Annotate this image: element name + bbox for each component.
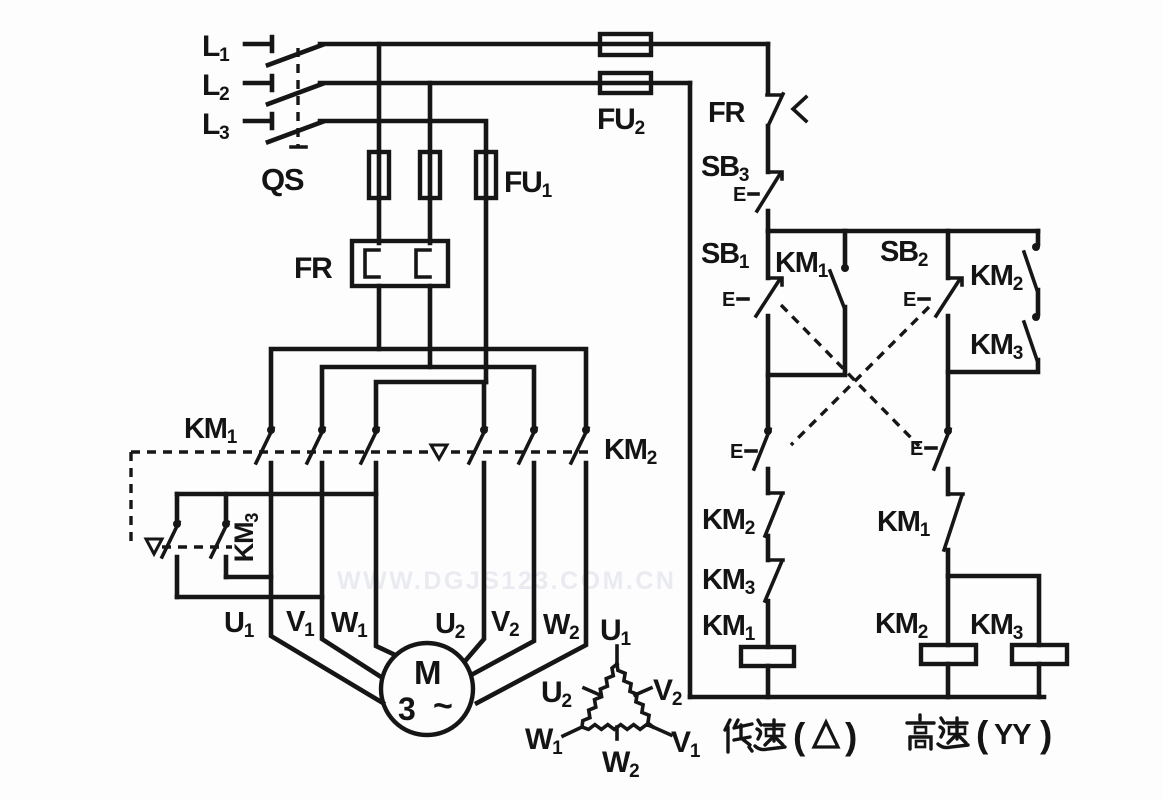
wire KM1 coil to bus — [766, 666, 771, 697]
wire distribution line A — [271, 349, 586, 426]
contactor KM2 NC contact — [765, 493, 783, 536]
svg-text:SB2: SB2 — [880, 236, 928, 271]
wire SB3 to node — [766, 211, 771, 231]
contactor KM1 main contact 2 — [318, 426, 326, 434]
wire motor lead W1 — [376, 463, 393, 654]
delta W2 tap — [615, 727, 619, 739]
svg-text:V1: V1 — [286, 606, 315, 641]
delta V1 lead — [653, 727, 671, 735]
wire phase A fuse to FR — [377, 198, 382, 243]
delta winding U1 stub — [615, 646, 619, 664]
pushbutton SB2 NC — [936, 278, 962, 316]
svg-text:KM2: KM2 — [702, 504, 755, 539]
svg-text:3: 3 — [398, 691, 415, 727]
svg-text:E: E — [730, 441, 743, 463]
wire phase B FR to node — [428, 286, 433, 367]
delta U2 tap — [584, 688, 600, 695]
wire right control feed — [766, 44, 771, 93]
wire motor lead U2 — [466, 463, 484, 660]
delta V2 tap — [635, 688, 651, 695]
motor M circle — [381, 643, 473, 735]
svg-text:E: E — [733, 184, 746, 206]
fuse FU1 a — [369, 152, 389, 198]
svg-text:KM2: KM2 — [970, 260, 1023, 295]
svg-text:QS: QS — [261, 162, 304, 197]
wire KM2 coil to bus — [946, 664, 951, 697]
wire bottom bus — [690, 695, 1044, 700]
svg-text:U1: U1 — [600, 614, 631, 650]
svg-text:KM1: KM1 — [877, 506, 931, 541]
FR heater element b — [416, 250, 430, 277]
contactor KM1 main contact 3 — [372, 426, 380, 434]
contactor KM2 main contact 1 — [480, 426, 488, 434]
wire KM3 bottom to V1 — [177, 595, 322, 600]
svg-text:W2: W2 — [543, 609, 579, 644]
wire motor lead V1 — [322, 463, 381, 677]
delta winding bottom side — [582, 725, 653, 730]
svg-text:WWW.DGJS123.COM.CN: WWW.DGJS123.COM.CN — [337, 567, 676, 595]
wire motor lead V2 — [473, 463, 534, 674]
switch QS blade L1 — [268, 45, 322, 65]
svg-text:(: ( — [793, 716, 806, 757]
delta winding right side — [617, 664, 653, 727]
wire motor lead W2 — [477, 463, 586, 703]
svg-text:E: E — [903, 289, 916, 311]
fuse FU1 c — [476, 152, 496, 198]
svg-text:SB1: SB1 — [701, 238, 750, 273]
svg-text:E: E — [722, 289, 735, 311]
svg-text:KM2: KM2 — [604, 434, 657, 469]
wire L3 terminal — [245, 114, 272, 128]
svg-text:U2: U2 — [435, 608, 465, 643]
contactor KM3 contact 1 — [175, 494, 180, 597]
svg-text:): ) — [1040, 714, 1051, 755]
svg-text:(: ( — [976, 714, 989, 755]
wire SB2 NO to KM1 NC — [946, 469, 951, 494]
switch QS linkage dashed — [296, 48, 299, 146]
svg-text:): ) — [845, 716, 856, 757]
contactor KM2 main contact 3 — [582, 426, 590, 434]
contactor KM3 contact 2 — [224, 494, 229, 577]
wire phase C fuse down — [484, 198, 489, 382]
coil KM1 — [741, 647, 794, 666]
svg-text:YY: YY — [994, 719, 1031, 751]
wire KM1 NC to coils — [946, 550, 951, 645]
wire splitter to KM3 coil — [948, 576, 1039, 645]
wire KM3 coil to bus — [1037, 664, 1042, 697]
label high speed YY — [907, 715, 934, 749]
wire L2 terminal — [245, 76, 272, 90]
svg-text:L2: L2 — [202, 69, 229, 105]
pushbutton SB2 NO — [944, 427, 952, 435]
fuse FU1 b — [420, 152, 440, 198]
svg-text:L3: L3 — [202, 108, 229, 144]
svg-text:KM3: KM3 — [970, 329, 1023, 364]
switch QS blade L2 — [268, 84, 322, 104]
svg-text:W1: W1 — [331, 607, 368, 642]
coil KM2 — [921, 645, 976, 664]
dashed link SB1-SB2 a — [781, 305, 919, 446]
svg-text:KM1: KM1 — [775, 247, 829, 282]
contactor KM1 NC contact — [944, 494, 963, 550]
wire SB2 to SB2 NO — [946, 316, 951, 428]
wire SB2 rail — [946, 231, 951, 278]
delta W1 lead — [563, 727, 582, 736]
mechanical linkage dashed KM1-KM2 — [131, 450, 590, 453]
wire FR to SB3 — [766, 126, 771, 172]
svg-text:~: ~ — [433, 687, 452, 725]
svg-text:FU1: FU1 — [504, 166, 553, 202]
wire left control rail — [688, 83, 693, 697]
svg-text:FR: FR — [708, 97, 746, 129]
contactor KM2 aux contact — [1032, 243, 1040, 251]
contactor KM3 aux contact — [1032, 313, 1040, 321]
coil KM3 — [1012, 645, 1067, 664]
wire to KM3 NC — [766, 536, 771, 560]
contactor KM2 main contact 2 — [530, 426, 538, 434]
FR heater element a — [365, 250, 379, 277]
svg-text:KM1: KM1 — [184, 413, 238, 448]
pushbutton SB1 NO — [764, 427, 772, 435]
svg-text:V1: V1 — [671, 726, 701, 762]
wire L1 to FU2 — [320, 42, 768, 47]
svg-text:M: M — [414, 654, 440, 691]
contactor KM1 aux NO branch — [768, 231, 845, 375]
wire L1 terminal — [245, 37, 272, 51]
wire phase B fuse to FR — [428, 198, 433, 243]
svg-text:FU2: FU2 — [597, 103, 645, 139]
contactor KM3 NC contact — [765, 560, 783, 601]
svg-text:KM1: KM1 — [702, 610, 756, 645]
svg-text:KM3: KM3 — [702, 564, 755, 599]
linkage arrow KM3 — [146, 539, 162, 554]
svg-text:KM2: KM2 — [875, 608, 928, 643]
wire L2 to FU2 — [320, 81, 690, 86]
svg-text:U1: U1 — [224, 607, 255, 642]
wire to KM1 coil — [766, 601, 771, 647]
wire L3 to FU1 — [320, 121, 486, 198]
svg-text:V2: V2 — [491, 606, 519, 641]
pushbutton SB1 NC — [756, 278, 782, 316]
wire KM2 KM3 branch — [948, 231, 1038, 372]
svg-text:W2: W2 — [602, 746, 639, 782]
thermal relay FR heater box — [352, 241, 448, 286]
svg-text:FR: FR — [294, 252, 333, 285]
delta winding left side — [582, 664, 617, 727]
svg-text:W1: W1 — [525, 723, 563, 759]
svg-text:KM3: KM3 — [229, 513, 262, 563]
wire rail to SB1 — [766, 231, 771, 278]
wire top branch line — [768, 229, 1038, 234]
fuse FU2 a — [600, 34, 651, 55]
wire phase A FR to node — [377, 286, 382, 349]
svg-text:KM3: KM3 — [970, 609, 1023, 644]
wire motor lead U1 — [271, 463, 383, 703]
svg-text:U2: U2 — [541, 676, 571, 712]
wire SB1 to SB1 NO — [766, 316, 771, 428]
contactor KM3 top wire — [177, 492, 376, 497]
wire distribution line C — [376, 382, 486, 426]
svg-text:V2: V2 — [653, 674, 682, 710]
linkage arrow mid — [431, 445, 447, 459]
wire KM3 bottom to U1 — [226, 575, 271, 580]
wire SB1 NO to KM2 NC — [766, 469, 771, 493]
fuse FU2 b — [600, 73, 651, 93]
wire drop phase B to FU1 — [428, 83, 433, 198]
label low speed delta — [725, 720, 752, 752]
wire drop phase A to FU1 — [377, 44, 382, 198]
svg-text:SB3: SB3 — [701, 151, 749, 186]
switch QS blade L3 — [268, 122, 322, 142]
contactor KM1 main contact 1 — [267, 426, 275, 434]
wire distribution line B — [322, 367, 534, 426]
pushbutton SB3 NC — [757, 172, 782, 211]
svg-text:L1: L1 — [202, 30, 230, 66]
dashed link SB1-SB2 b — [791, 307, 929, 445]
thermal relay FR NC contact — [767, 94, 783, 126]
